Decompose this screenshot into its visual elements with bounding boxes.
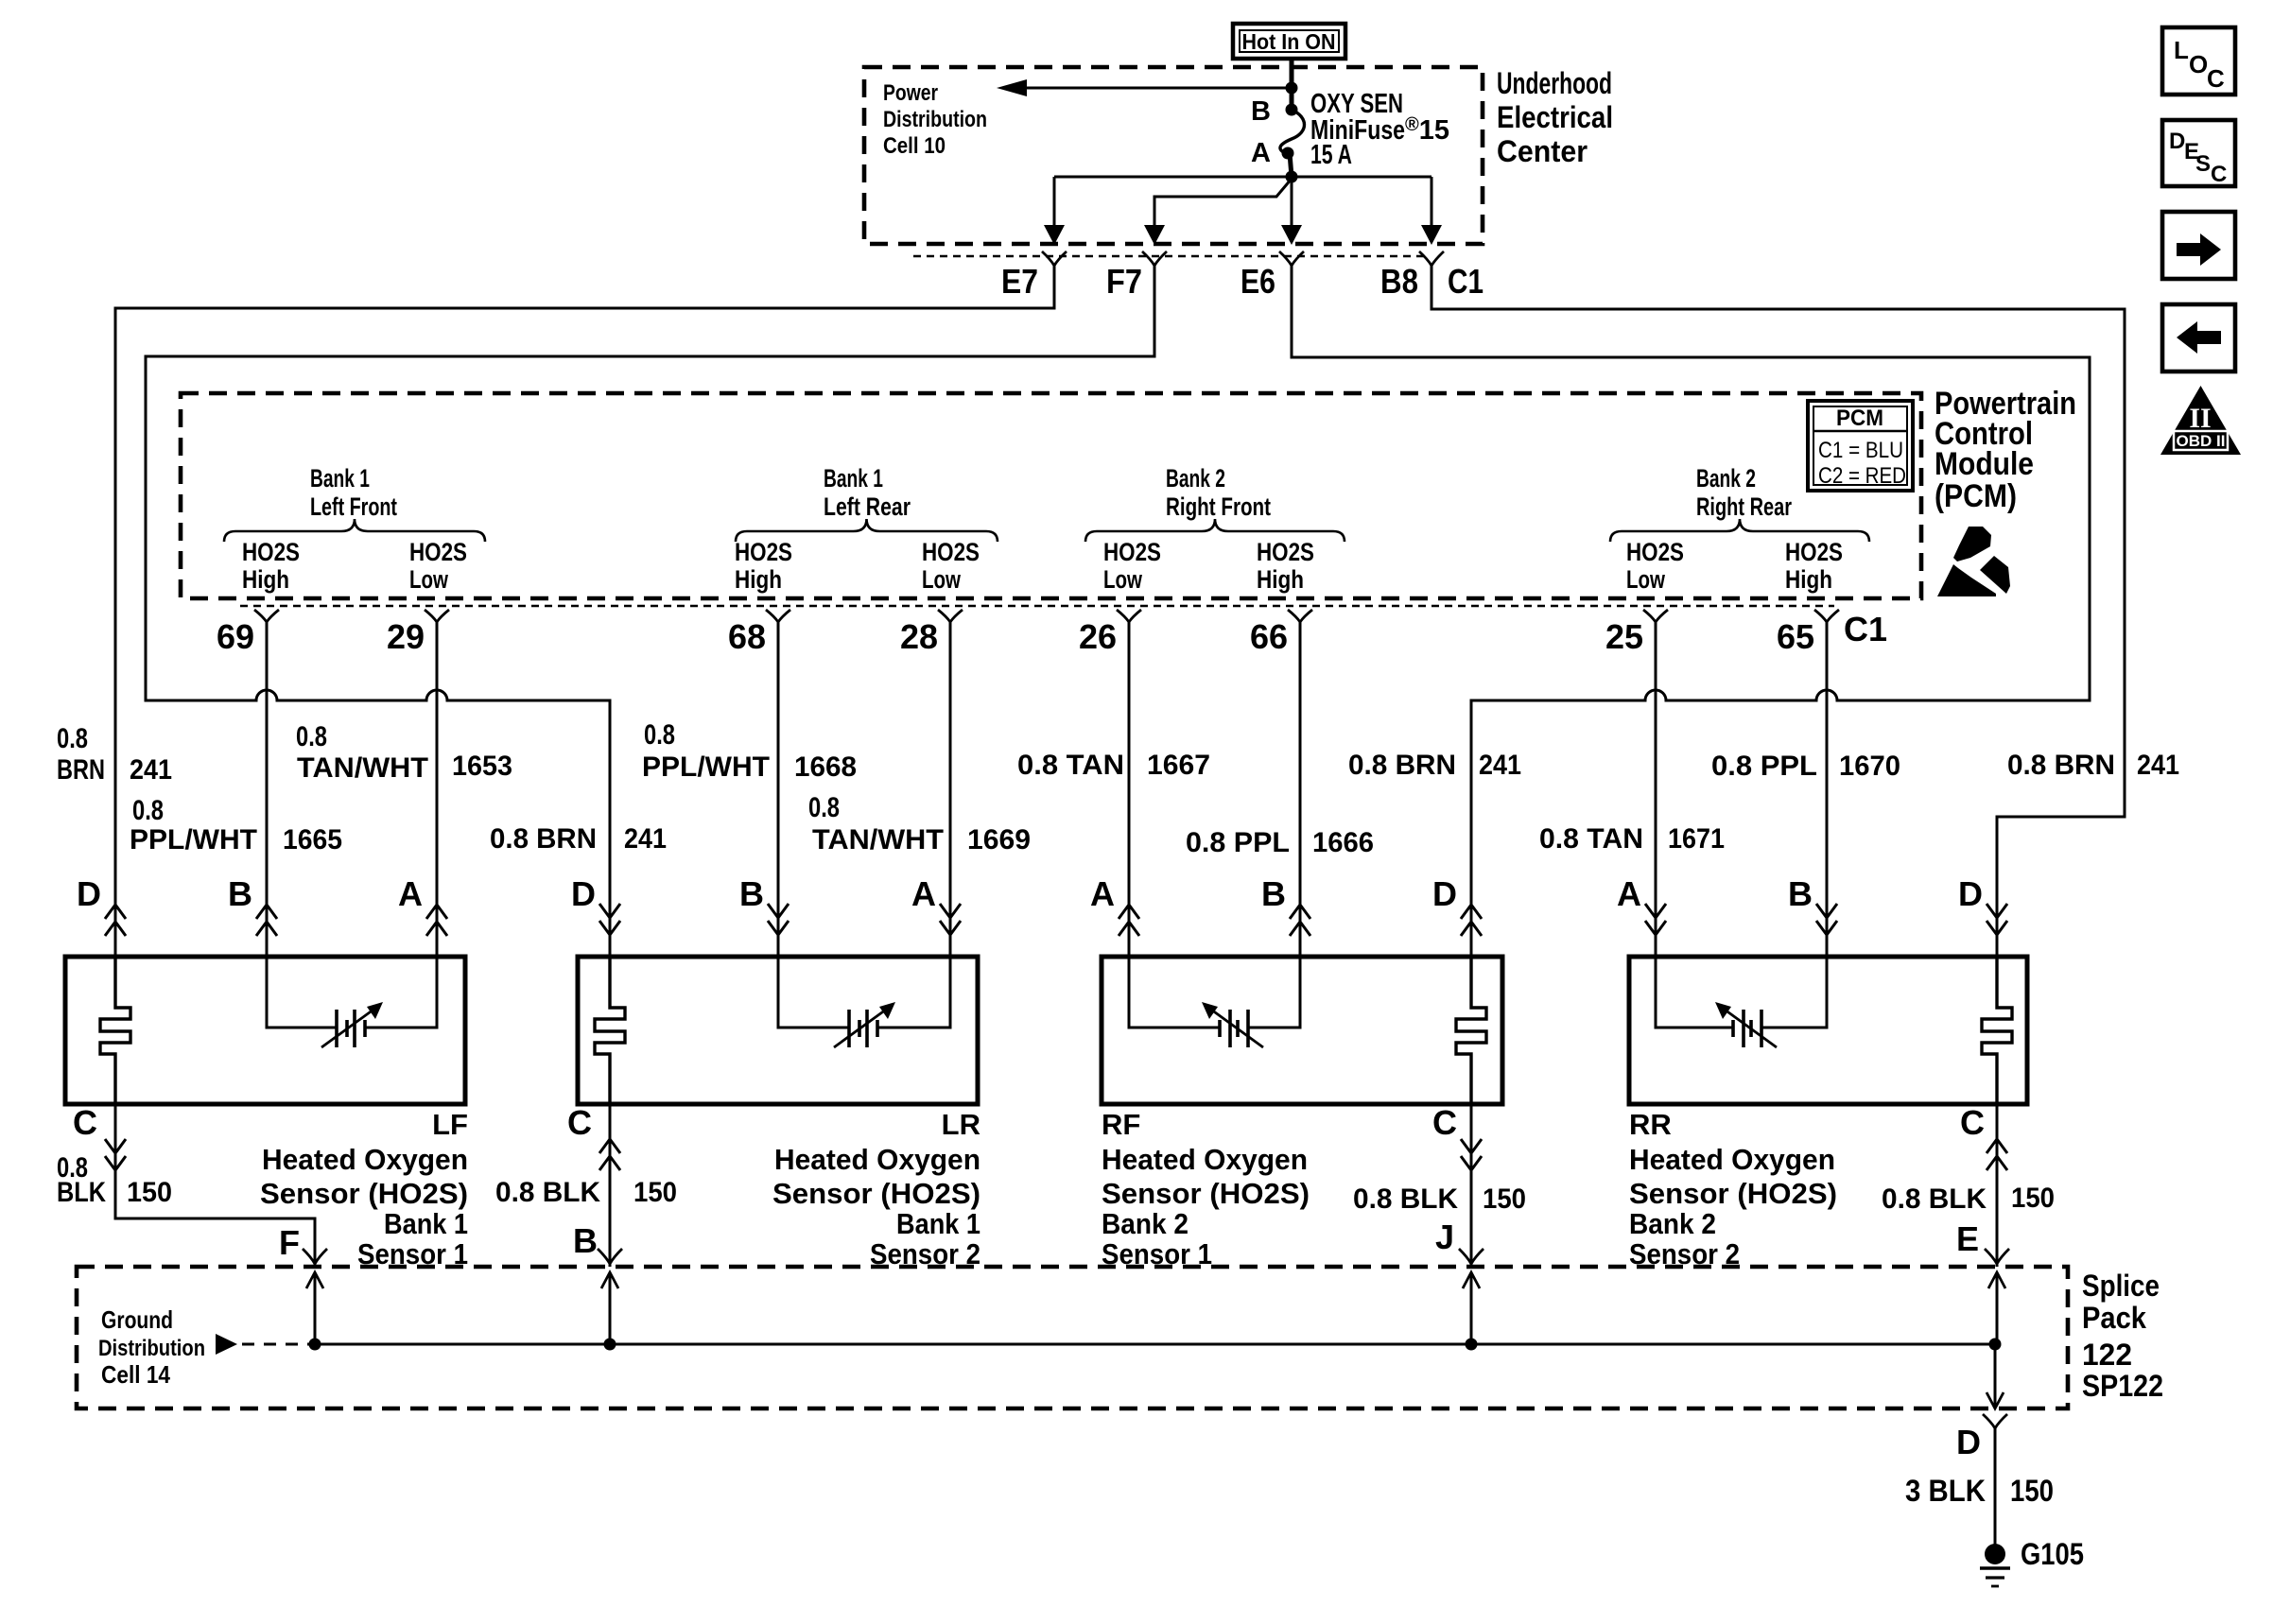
svg-text:L: L: [2174, 36, 2189, 64]
label: Underhood Electrical Center: [1497, 66, 1613, 168]
svg-text:LR: LR: [942, 1108, 980, 1141]
svg-text:0.8 BRN: 0.8 BRN: [490, 823, 597, 855]
svg-text:C1 = BLU: C1 = BLU: [1818, 438, 1903, 463]
Powertrain Control Module (PCM) dashed box: [181, 393, 1921, 598]
svg-text:Bank 2: Bank 2: [1102, 1207, 1189, 1240]
svg-text:E: E: [1956, 1219, 1979, 1258]
wire: 0.8 BLK 150 from RR pin C to splice pack pin E: [1985, 1104, 2009, 1344]
wire: branch down to terminal E7: [1044, 177, 1065, 245]
wire: 0.8 TAN 1667 from PCM pin 26 to sensor: [1128, 622, 1131, 957]
svg-text:PCM: PCM: [1836, 406, 1883, 431]
PCM pin 25 connector: [1605, 610, 1668, 656]
PCM connector legend box: C1 = BLU, C2 = RED: [1808, 401, 1913, 491]
ground G105: [1980, 1537, 2084, 1586]
svg-text:Bank 2: Bank 2: [1696, 464, 1756, 492]
svg-text:15 A: 15 A: [1310, 140, 1352, 170]
wire label: 0.8 BRN 241 (B8 branch): [2007, 750, 2179, 781]
svg-text:150: 150: [633, 1177, 677, 1208]
wire: 0.8 PPL/WHT 1665 from PCM pin 69 to sensor: [266, 622, 269, 957]
label: C / 0.8 BLK 150 / B (LR): [495, 1103, 677, 1260]
svg-text:1665: 1665: [283, 824, 342, 855]
label: RR sensor caption: [1629, 1108, 1837, 1270]
svg-text:241: 241: [130, 754, 172, 786]
Splice Pack SP122 dashed box: [77, 1267, 2068, 1408]
svg-text:3 BLK: 3 BLK: [1905, 1474, 1986, 1508]
svg-text:68: 68: [728, 617, 766, 656]
wire: 0.8 PPL/WHT 1668 from PCM pin 68 to sensor: [777, 622, 780, 957]
sensing element (variable) inside LR: [778, 957, 950, 1047]
PCM pin 29 connector: [387, 610, 449, 656]
connector chevrons (out) on sensor pin wire x=282: [256, 905, 277, 936]
wire: splice bus SP122: [315, 1343, 1995, 1346]
svg-text:HO2S: HO2S: [1626, 538, 1684, 566]
svg-text:High: High: [242, 565, 289, 594]
svg-text:0.8 TAN: 0.8 TAN: [1539, 823, 1643, 855]
svg-text:Heated Oxygen: Heated Oxygen: [1102, 1143, 1308, 1176]
svg-text:Heated Oxygen: Heated Oxygen: [1629, 1143, 1835, 1176]
svg-text:C: C: [1432, 1103, 1457, 1142]
connector chevrons (in) on sensor pin wire x=1932: [1816, 904, 1837, 935]
PCM pin 28 connector: [900, 610, 963, 656]
wire: 0.8 TAN/WHT 1669 from PCM pin 28 to sensor: [949, 622, 952, 957]
wire label: 0.8 PPL/WHT 1665: [130, 795, 342, 855]
svg-text:0.8: 0.8: [808, 792, 840, 823]
svg-text:1667: 1667: [1147, 750, 1210, 781]
svg-text:D: D: [571, 874, 596, 913]
icon: forward arrow box: [2162, 212, 2235, 279]
wire: fuse output bus to E7 and B8: [1054, 176, 1431, 179]
svg-text:Low: Low: [922, 565, 962, 594]
svg-text:Low: Low: [1626, 565, 1666, 594]
svg-text:HO2S: HO2S: [735, 538, 792, 566]
svg-text:A: A: [911, 874, 936, 913]
svg-text:D: D: [2169, 129, 2185, 154]
label: LF sensor caption: [260, 1108, 468, 1270]
svg-text:0.8 PPL: 0.8 PPL: [1186, 827, 1290, 858]
wire label: 0.8 BRN 241 (E6 branch): [1348, 750, 1521, 781]
wire label: 0.8 PPL/WHT 1668: [642, 719, 857, 783]
svg-text:PPL/WHT: PPL/WHT: [130, 824, 257, 855]
connector C1 of UEC: dotted interface line: [913, 255, 1426, 257]
svg-text:69: 69: [217, 617, 254, 656]
svg-text:Bank 2: Bank 2: [1629, 1207, 1716, 1240]
svg-text:1671: 1671: [1668, 823, 1725, 855]
svg-text:Hot In ON: Hot In ON: [1242, 29, 1336, 54]
svg-text:B: B: [1261, 874, 1286, 913]
svg-text:241: 241: [624, 823, 667, 855]
HO2S sensor RF box: [1102, 957, 1502, 1104]
svg-text:RR: RR: [1629, 1108, 1672, 1141]
icon: LOC box: [2162, 27, 2235, 95]
node: splice junction F: [309, 1339, 321, 1351]
svg-text:1670: 1670: [1839, 751, 1900, 782]
svg-text:F7: F7: [1106, 262, 1142, 301]
connector chevrons (in) on sensor pin wire x=1751: [1645, 904, 1666, 935]
wire: 0.8 BLK 150 from RF pin C to splice pack pin J: [1459, 1104, 1484, 1344]
svg-text:1666: 1666: [1312, 827, 1374, 858]
svg-text:25: 25: [1605, 617, 1643, 656]
node: splice junction B: [604, 1339, 616, 1351]
svg-text:O: O: [2189, 50, 2208, 78]
svg-text:29: 29: [387, 617, 425, 656]
connector chevrons (in) on sensor pin wire x=1005: [940, 904, 961, 935]
wire label: 0.8 PPL 1670: [1711, 751, 1900, 782]
svg-text:II: II: [2189, 403, 2211, 434]
wire: 0.8 BRN 241 from E7 to LF HO2S pin D: [115, 266, 1054, 957]
svg-text:D: D: [1956, 1423, 1981, 1461]
svg-text:BRN: BRN: [57, 754, 105, 786]
svg-text:Sensor (HO2S): Sensor (HO2S): [260, 1177, 468, 1210]
svg-text:Splice: Splice: [2082, 1269, 2160, 1303]
svg-text:0.8 BLK: 0.8 BLK: [1353, 1183, 1458, 1215]
sensing element (variable) inside RF: [1129, 957, 1300, 1047]
wire: 0.8 TAN/WHT 1653 from PCM pin 29 to sensor: [436, 622, 439, 957]
wire: 0.8 BRN 241 from B8 to RR HO2S pin D: [1431, 266, 2125, 957]
svg-text:B: B: [739, 874, 764, 913]
PCM connector C1: dotted interface line: [240, 605, 1834, 607]
svg-text:26: 26: [1079, 617, 1117, 656]
node: splice junction E/D: [1989, 1339, 2002, 1351]
wire label: 0.8 TAN 1667: [1017, 750, 1210, 781]
connector chevrons (out) on sensor pin wire x=462: [426, 905, 447, 936]
svg-text:D: D: [1958, 874, 1983, 913]
wire label: 0.8 BRN 241 (E7 branch): [57, 723, 172, 786]
svg-text:Bank 2: Bank 2: [1166, 464, 1225, 492]
svg-text:B: B: [1251, 96, 1271, 127]
svg-text:Sensor (HO2S): Sensor (HO2S): [1629, 1177, 1837, 1210]
svg-text:J: J: [1435, 1218, 1454, 1256]
PCM pin 66 connector: [1250, 610, 1312, 656]
icon: OBD II triangle: [2160, 386, 2241, 455]
PCM pin 65 connector: [1777, 610, 1839, 656]
label: Splice Pack 122 SP122: [2082, 1269, 2163, 1403]
node: splice junction J: [1466, 1339, 1478, 1351]
svg-text:Bank 1: Bank 1: [824, 464, 883, 492]
svg-text:Distribution: Distribution: [98, 1336, 205, 1361]
svg-text:SP122: SP122: [2082, 1369, 2163, 1403]
heater element inside RF: [1456, 957, 1486, 1104]
svg-text:A: A: [398, 874, 423, 913]
label: RF sensor caption: [1102, 1108, 1310, 1270]
svg-text:TAN/WHT: TAN/WHT: [812, 824, 944, 855]
svg-text:65: 65: [1777, 617, 1814, 656]
ESD-sensitive device symbol inside PCM: [1937, 527, 2010, 596]
fuse: OXY SEN MiniFuse 15, 15 A (terminals B and A): [1251, 88, 1449, 177]
svg-text:C1: C1: [1448, 262, 1484, 301]
sensing element (variable) inside LF: [267, 957, 437, 1047]
Underhood Electrical Center dashed box: [864, 67, 1483, 244]
svg-text:F: F: [279, 1223, 300, 1262]
label: C / 0.8 BLK 150 / E (RR): [1882, 1103, 2055, 1258]
svg-text:122: 122: [2082, 1338, 2132, 1372]
svg-text:Pack: Pack: [2082, 1301, 2146, 1335]
svg-text:Module: Module: [1935, 446, 2034, 482]
svg-text:Center: Center: [1497, 134, 1588, 168]
svg-text:150: 150: [1483, 1183, 1526, 1215]
label: Bank 1 Left Front group: [224, 464, 485, 594]
heater element inside RR: [1982, 957, 2012, 1104]
svg-text:66: 66: [1250, 617, 1288, 656]
terminal B8 connector: [1419, 251, 1444, 266]
power tag: Hot In ON box: [1233, 24, 1345, 59]
svg-text:E6: E6: [1241, 262, 1275, 301]
svg-text:HO2S: HO2S: [922, 538, 980, 566]
svg-text:Bank 1: Bank 1: [384, 1207, 468, 1240]
wire: 0.8 BLK 150 from LF pin C to splice pack pin F: [105, 1104, 327, 1344]
label: Bank 1 Left Rear group: [735, 464, 998, 594]
svg-text:B: B: [1788, 874, 1813, 913]
svg-text:Left Rear: Left Rear: [824, 492, 911, 521]
svg-text:C: C: [2211, 162, 2227, 187]
svg-text:0.8 BLK: 0.8 BLK: [495, 1177, 600, 1208]
svg-text:Right Rear: Right Rear: [1696, 492, 1792, 521]
wire: 3 BLK 150 from splice pin D to G105: [1983, 1344, 2007, 1546]
svg-text:A: A: [1090, 874, 1115, 913]
wire: arrow to Power Distribution Cell 10: [997, 79, 1292, 96]
connector chevrons (in) on sensor pin wire x=645: [599, 904, 620, 935]
svg-text:241: 241: [2137, 750, 2179, 781]
svg-text:C2 = RED: C2 = RED: [1818, 463, 1906, 489]
wire: 0.8 BRN 241 from F7 to LR HO2S pin D (hops over PCM pin wires): [146, 266, 1154, 957]
svg-text:Electrical: Electrical: [1497, 100, 1613, 134]
svg-text:0.8 BLK: 0.8 BLK: [1882, 1183, 1987, 1215]
label: Powertrain Control Module (PCM): [1935, 386, 2076, 514]
svg-text:High: High: [1785, 565, 1832, 594]
label: Ground Distribution Cell 14: [98, 1305, 205, 1389]
svg-text:High: High: [1257, 565, 1304, 594]
wire: 0.8 PPL 1670 from PCM pin 65 to sensor: [1826, 622, 1829, 957]
svg-text:0.8 BRN: 0.8 BRN: [2007, 750, 2115, 781]
terminal E6 connector: [1279, 251, 1304, 266]
svg-text:Bank 1: Bank 1: [896, 1207, 980, 1240]
svg-text:C: C: [73, 1103, 97, 1142]
svg-text:High: High: [735, 565, 782, 594]
label: Power Distribution Cell 10: [883, 80, 987, 159]
svg-text:Heated Oxygen: Heated Oxygen: [262, 1143, 468, 1176]
svg-text:0.8: 0.8: [132, 795, 164, 826]
svg-text:1669: 1669: [967, 824, 1031, 855]
node: splice below fuse: [1286, 171, 1298, 183]
wire label: 0.8 TAN/WHT 1653: [296, 721, 512, 784]
svg-text:A: A: [1251, 138, 1271, 168]
svg-text:B: B: [573, 1221, 598, 1260]
terminal E7 connector: [1042, 251, 1067, 266]
svg-text:Power: Power: [883, 80, 938, 106]
wire: branch down to terminal E6: [1281, 177, 1302, 245]
wire label: 0.8 TAN/WHT 1669: [808, 792, 1031, 855]
svg-text:G105: G105: [2021, 1537, 2084, 1571]
wire label: 0.8 PPL 1666: [1186, 827, 1374, 858]
svg-text:0.8 BRN: 0.8 BRN: [1348, 750, 1456, 781]
connector chevrons (out) on sensor pin wire x=1556: [1461, 905, 1482, 936]
svg-text:(PCM): (PCM): [1935, 478, 2017, 514]
wire: branch down to terminal B8: [1421, 177, 1442, 245]
svg-text:PPL/WHT: PPL/WHT: [642, 752, 770, 783]
svg-text:B: B: [228, 874, 252, 913]
label: C / 0.8 BLK 150 / F (LF): [57, 1103, 300, 1262]
svg-text:Cell 14: Cell 14: [101, 1360, 170, 1389]
svg-text:0.8: 0.8: [57, 723, 88, 754]
svg-text:0.8: 0.8: [296, 721, 327, 752]
svg-text:E7: E7: [1001, 262, 1038, 301]
svg-text:C: C: [567, 1103, 592, 1142]
label: D / 3 BLK 150: [1905, 1423, 2054, 1508]
svg-text:Sensor (HO2S): Sensor (HO2S): [1102, 1177, 1310, 1210]
icon: DESC box: [2162, 120, 2235, 187]
svg-text:Distribution: Distribution: [883, 107, 987, 132]
connector chevrons (out) on sensor pin wire x=122: [105, 905, 126, 936]
PCM pin 26 connector: [1079, 610, 1141, 656]
svg-text:C: C: [2207, 64, 2225, 93]
wire: 0.8 TAN 1671 from PCM pin 25 to sensor: [1655, 622, 1657, 957]
icon: back arrow box: [2162, 304, 2235, 371]
svg-text:0.8: 0.8: [644, 719, 675, 751]
HO2S sensor LR box: [578, 957, 978, 1104]
svg-text:Sensor (HO2S): Sensor (HO2S): [772, 1177, 980, 1210]
svg-text:Underhood: Underhood: [1497, 66, 1612, 100]
svg-text:BLK: BLK: [57, 1177, 106, 1208]
terminal F7 connector: [1142, 251, 1167, 266]
svg-text:Low: Low: [409, 565, 449, 594]
label: Bank 2 Right Front group: [1085, 464, 1345, 594]
svg-text:B8: B8: [1380, 262, 1418, 301]
connector chevrons (out) on sensor pin wire x=1194: [1119, 905, 1139, 936]
svg-text:D: D: [77, 874, 101, 913]
wire label: 0.8 TAN 1671: [1539, 823, 1725, 855]
connector chevrons (in) on sensor pin wire x=823: [768, 904, 789, 935]
HO2S sensor LF box: [65, 957, 465, 1104]
svg-text:S: S: [2195, 151, 2211, 177]
svg-text:TAN/WHT: TAN/WHT: [297, 752, 428, 784]
svg-text:241: 241: [1479, 750, 1521, 781]
svg-text:Heated Oxygen: Heated Oxygen: [774, 1143, 980, 1176]
wire: ignition feed from Hot In ON into UEC: [1290, 57, 1294, 88]
svg-text:HO2S: HO2S: [242, 538, 300, 566]
PCM pin 68 connector: [728, 610, 790, 656]
svg-text:RF: RF: [1102, 1108, 1140, 1141]
wire: 0.8 PPL 1666 from PCM pin 66 to sensor: [1299, 622, 1302, 957]
svg-text:C: C: [1960, 1103, 1985, 1142]
HO2S sensor RR box: [1629, 957, 2027, 1104]
svg-text:150: 150: [2011, 1183, 2055, 1214]
wire: 0.8 BLK 150 from LR pin C to splice pack pin B: [598, 1104, 622, 1344]
node: splice above fuse: [1286, 82, 1298, 95]
wire: dashed link from Ground Distribution arrow to splice bus: [216, 1334, 315, 1355]
svg-text:Bank 1: Bank 1: [310, 464, 370, 492]
label: C / 0.8 BLK 150 / J (RF): [1353, 1103, 1526, 1256]
svg-text:1653: 1653: [452, 751, 512, 782]
wire: branch to terminal F7: [1144, 179, 1292, 245]
PCM pin 69 connector: [217, 610, 279, 656]
heater element inside LR: [595, 957, 625, 1104]
svg-text:OBD II: OBD II: [2177, 432, 2226, 450]
svg-text:A: A: [1617, 874, 1641, 913]
svg-text:Left Front: Left Front: [310, 492, 397, 521]
wire label: 0.8 BRN 241 (F7 branch): [490, 823, 667, 855]
label: Bank 2 Right Rear group: [1610, 464, 1869, 594]
svg-text:HO2S: HO2S: [409, 538, 467, 566]
svg-text:Right Front: Right Front: [1166, 492, 1271, 521]
svg-text:28: 28: [900, 617, 938, 656]
svg-text:Cell 10: Cell 10: [883, 133, 946, 159]
svg-text:LF: LF: [432, 1108, 468, 1141]
heater element inside LF: [100, 957, 130, 1104]
svg-text:1668: 1668: [794, 752, 857, 783]
connector chevrons (in) on sensor pin wire x=2112: [1987, 904, 2007, 935]
sensing element (variable) inside RR: [1656, 957, 1827, 1047]
svg-text:D: D: [1432, 874, 1457, 913]
svg-text:0.8 TAN: 0.8 TAN: [1017, 750, 1124, 781]
label: LR sensor caption: [772, 1108, 980, 1270]
svg-text:HO2S: HO2S: [1257, 538, 1314, 566]
svg-text:Ground: Ground: [101, 1305, 173, 1334]
wire: 0.8 BRN 241 from E6 to RF HO2S pin D (hops over PCM pin wires): [1292, 266, 2090, 957]
svg-text:HO2S: HO2S: [1785, 538, 1843, 566]
svg-text:HO2S: HO2S: [1103, 538, 1161, 566]
connector chevrons (out) on sensor pin wire x=1375: [1290, 905, 1310, 936]
svg-text:0.8 PPL: 0.8 PPL: [1711, 751, 1817, 782]
svg-text:C1: C1: [1844, 610, 1887, 648]
svg-text:Low: Low: [1103, 565, 1143, 594]
svg-text:150: 150: [2010, 1474, 2054, 1508]
svg-text:150: 150: [127, 1177, 172, 1208]
